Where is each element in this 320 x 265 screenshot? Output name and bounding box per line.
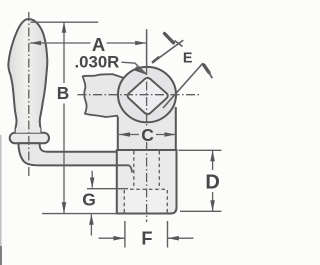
- E upper leader: [152, 40, 183, 63]
- E lower slash tail: [208, 71, 212, 78]
- D bottom arrow: [210, 200, 215, 211]
- B bottom arrow: [62, 202, 67, 213]
- bottom baseline extension: [42, 213, 117, 215]
- dimension D line: [212, 150, 214, 170]
- A right arrow: [135, 41, 146, 46]
- D extension lines: [179, 149, 222, 151]
- wavy cast boss patch left of hub: [83, 74, 124, 117]
- E upper cross tick: [175, 41, 183, 47]
- .030R leader: [122, 62, 147, 74]
- dimension C: [119, 134, 139, 136]
- handle collar: [10, 133, 49, 144]
- dimension A line: [30, 42, 91, 44]
- E upper leader arrow blob: [153, 58, 159, 63]
- dimension F left: [99, 237, 125, 239]
- hub horizontal centerline: [78, 94, 200, 96]
- B top arrow: [62, 22, 67, 33]
- hidden square hole sides: [133, 151, 135, 189]
- G step extension line: [87, 188, 128, 190]
- boss right edge: [175, 107, 177, 151]
- svg-text:G: G: [82, 189, 96, 209]
- handle grip outline: [8, 19, 47, 133]
- collar neck top: [16, 128, 41, 133]
- C right arrow: [165, 132, 176, 137]
- E lower slash arrow: [204, 65, 209, 73]
- svg-text:D: D: [205, 171, 219, 193]
- hub vertical centerline + A extension: [146, 29, 148, 66]
- handle grip: [8, 19, 47, 134]
- hub boss below circle: [118, 100, 176, 151]
- hidden slot sides: [123, 190, 125, 213]
- top extension line: [31, 21, 99, 23]
- dimension B line: [63, 22, 65, 83]
- G down arrow: [91, 171, 93, 188]
- slot lighter area: [125, 191, 167, 213]
- svg-text:F: F: [141, 229, 152, 249]
- svg-text:E: E: [183, 51, 193, 67]
- scan edge artifact left: [0, 135, 2, 265]
- boss-arm fillet: [118, 148, 124, 152]
- E lower leader: [163, 63, 203, 108]
- hidden hole bottom: [130, 188, 168, 190]
- handle centerline: [28, 12, 30, 178]
- svg-text:B: B: [57, 83, 69, 103]
- C left arrow: [119, 132, 130, 137]
- svg-text:C: C: [141, 125, 154, 145]
- circle (round hub): [118, 67, 176, 122]
- svg-text:.030R: .030R: [75, 52, 120, 71]
- boss left edge: [117, 117, 119, 149]
- crank stem and arm: [18, 143, 119, 165]
- arm fillet into block face: [117, 165, 132, 172]
- A left arrow: [30, 41, 41, 46]
- square hole (rotated 45): [128, 78, 168, 114]
- G up arrow: [90, 215, 92, 236]
- D top arrow: [210, 150, 215, 161]
- dimension F right: [168, 237, 194, 239]
- E upper slash arrow: [165, 34, 174, 43]
- F extension lines: [124, 221, 126, 248]
- block body: [117, 150, 177, 214]
